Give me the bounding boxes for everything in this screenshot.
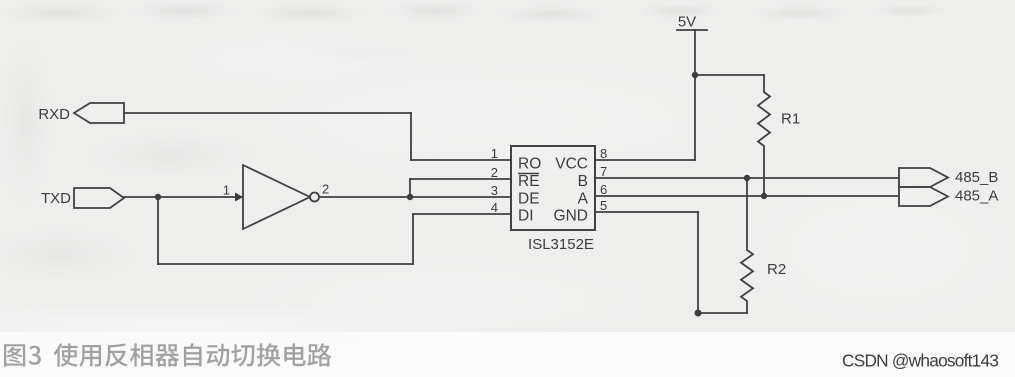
caption 图3 使用反相器自动切换电路: [4, 343, 331, 367]
svg-text:TXD: TXD: [41, 190, 71, 207]
wire pin5 GND: [595, 211, 698, 213]
svg-text:1: 1: [223, 183, 230, 198]
svg-text:1: 1: [491, 146, 498, 161]
wire RE link vertical: [409, 179, 411, 197]
svg-text:6: 6: [600, 182, 607, 197]
inverter U1 input arrowhead: [235, 193, 243, 202]
wire R2 bottom to GND net: [698, 312, 747, 314]
svg-text:5: 5: [600, 198, 607, 213]
svg-text:VCC: VCC: [555, 156, 588, 173]
svg-text:RO: RO: [518, 156, 541, 173]
wire pin2 RE: [410, 178, 511, 180]
wire branch to R1: [695, 74, 764, 76]
5V power bar: [677, 29, 707, 31]
svg-text:2: 2: [491, 165, 498, 180]
wire pin6 A line: [595, 195, 899, 197]
svg-text:3: 3: [491, 183, 498, 198]
svg-text:RXD: RXD: [38, 106, 70, 123]
svg-text:DE: DE: [518, 191, 540, 208]
junction R1 to A line: [761, 193, 767, 199]
inverter U1 triangle: [243, 165, 310, 229]
wire inverter output to DE: [319, 196, 511, 198]
resistor R2: [741, 178, 753, 313]
connector 485_A: [899, 187, 948, 206]
svg-text:8: 8: [600, 146, 607, 161]
wire pin8 VCC: [595, 159, 695, 161]
connector TXD: [74, 188, 124, 208]
svg-text:RE: RE: [518, 173, 540, 190]
connector RXD: [74, 103, 124, 123]
junction 5V node: [692, 72, 698, 78]
svg-text:B: B: [578, 173, 588, 190]
svg-text:A: A: [578, 191, 589, 208]
svg-text:2: 2: [322, 182, 329, 197]
junction GND corner node: [695, 310, 702, 317]
wire GND riser: [697, 212, 699, 313]
wire pin1 RO: [411, 159, 511, 161]
junction inverter output node: [407, 194, 413, 200]
wire TXD branch bottom: [158, 263, 413, 265]
resistor R1: [758, 75, 770, 196]
connector 485_B: [899, 168, 948, 187]
junction R2 to B line: [744, 175, 750, 181]
wire 5V vertical: [694, 30, 696, 160]
wire DI riser: [412, 214, 414, 264]
wire RXD drop to RO: [410, 113, 412, 160]
wire TXD to inverter input: [124, 196, 243, 198]
svg-text:R1: R1: [781, 111, 800, 128]
svg-text:4: 4: [491, 200, 498, 215]
IC U2 ISL3152E box: [511, 146, 595, 230]
wire pin7 B line: [595, 177, 899, 179]
svg-text:DI: DI: [518, 208, 534, 225]
svg-text:R2: R2: [767, 261, 786, 278]
junction TXD node: [155, 194, 161, 200]
inverter U1 output bubble: [310, 193, 319, 202]
wire pin4 DI: [413, 213, 511, 215]
svg-text:7: 7: [600, 164, 607, 179]
svg-text:ISL3152E: ISL3152E: [528, 236, 594, 253]
wire RXD horizontal: [124, 112, 411, 114]
svg-text:CSDN @whaosoft143: CSDN @whaosoft143: [842, 351, 999, 371]
svg-text:485_A: 485_A: [955, 188, 998, 205]
svg-text:485_B: 485_B: [955, 169, 998, 186]
svg-text:GND: GND: [554, 208, 588, 225]
svg-text:5V: 5V: [678, 14, 696, 31]
wire TXD branch down: [157, 197, 159, 264]
